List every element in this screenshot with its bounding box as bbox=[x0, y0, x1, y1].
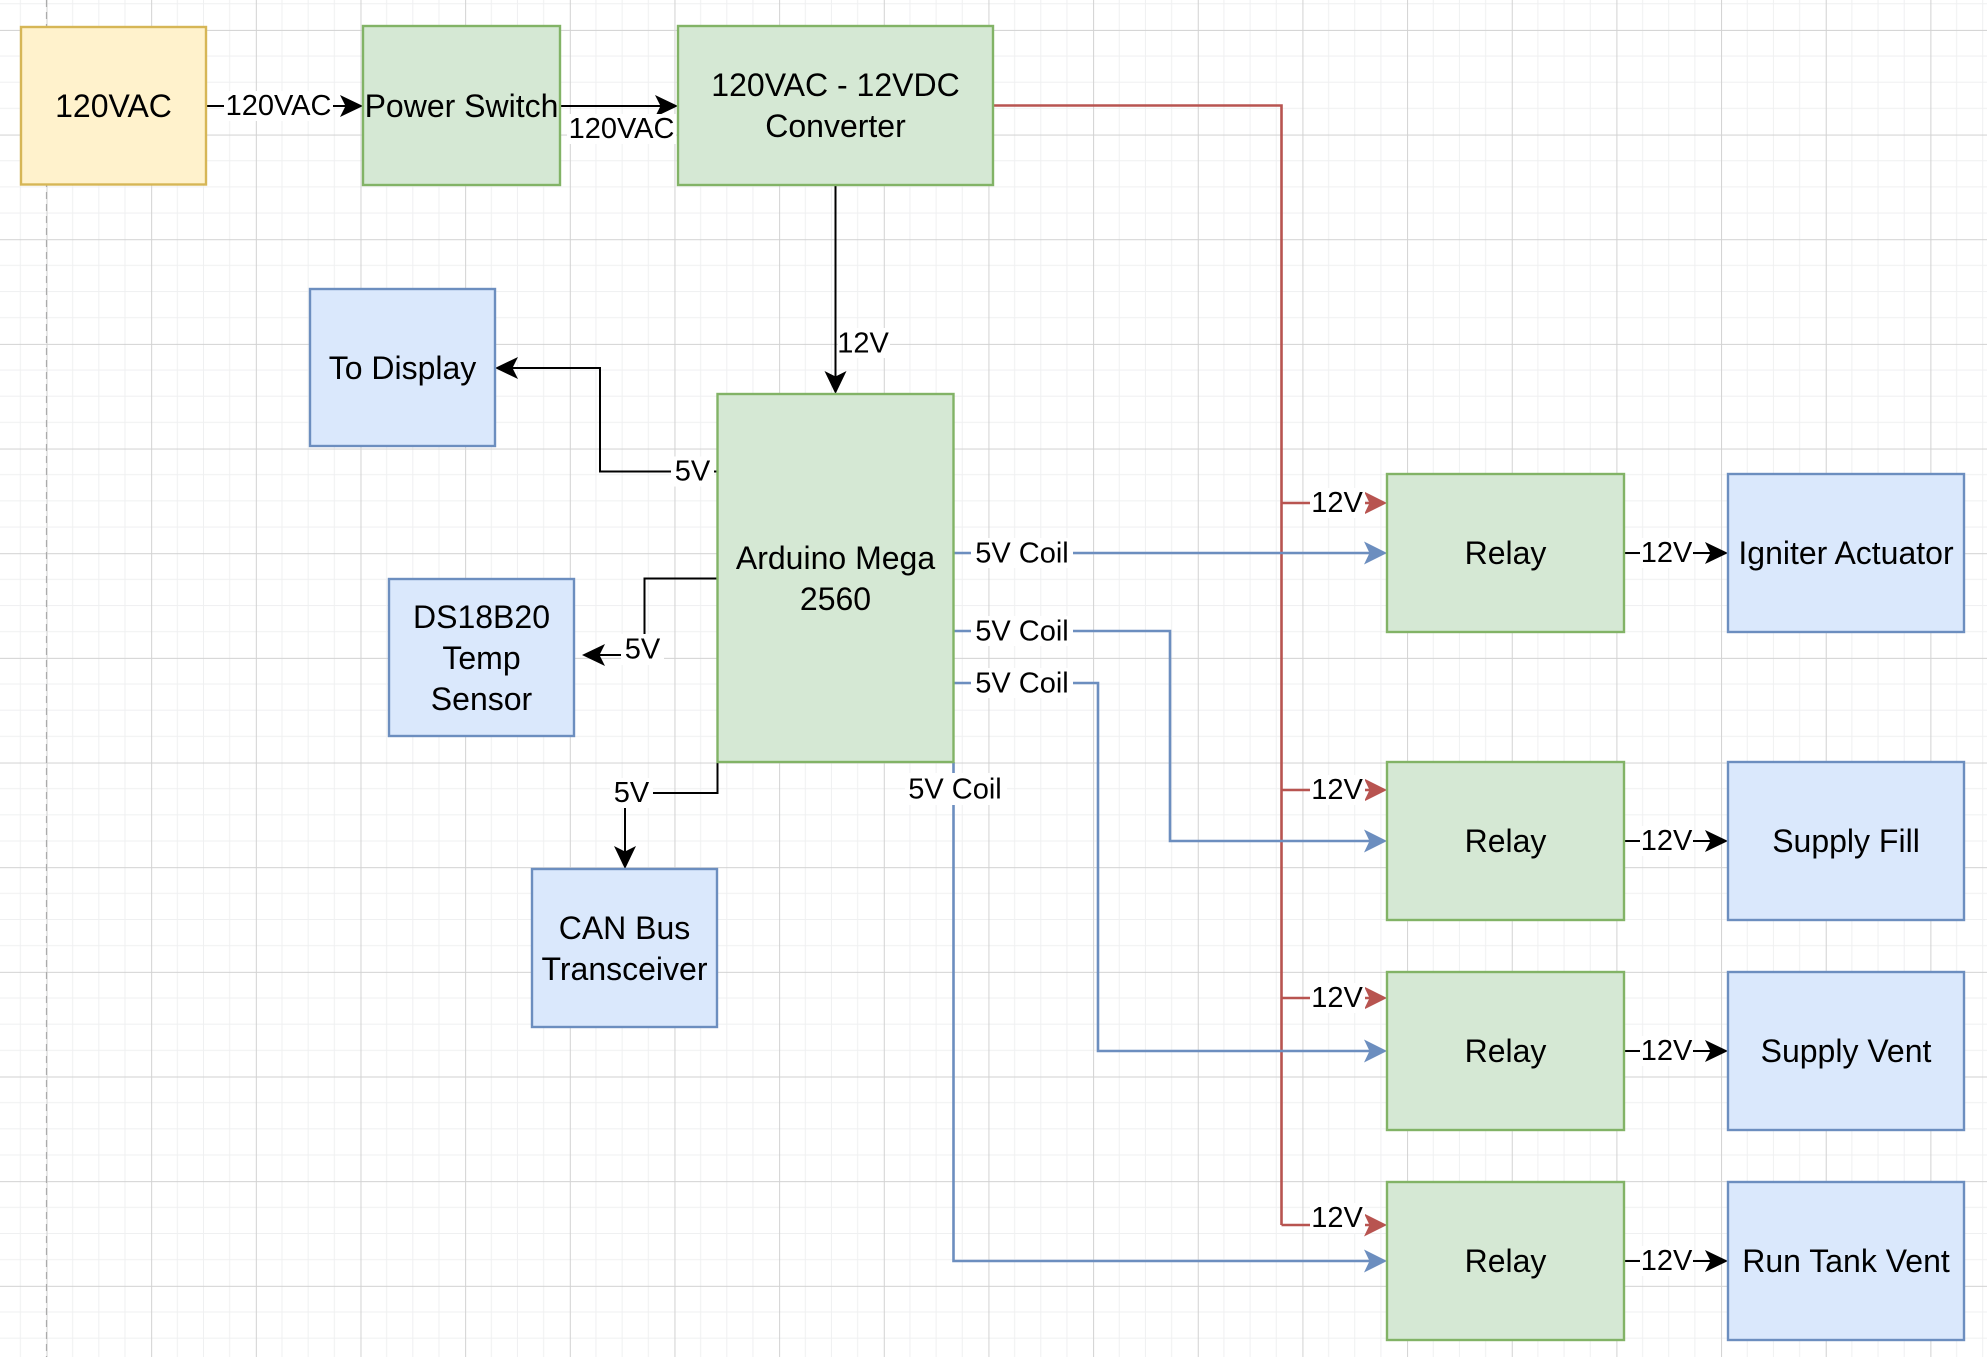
wire red 12V branch to Relay 1 bbox=[1282, 492, 1388, 515]
label 5V ds18b20 wire bbox=[621, 634, 664, 666]
svg-text:5V: 5V bbox=[625, 634, 661, 666]
svg-text:12V: 12V bbox=[1641, 825, 1693, 857]
svg-text:12V: 12V bbox=[1641, 1245, 1693, 1277]
label 120VAC on wire to Power Switch bbox=[224, 90, 333, 122]
wire 5V to To Display bbox=[495, 357, 718, 472]
wire 5V to CAN Bus Transceiver bbox=[614, 762, 718, 869]
wire blue 5V Coil to Relay 1 bbox=[954, 542, 1388, 565]
svg-text:12V: 12V bbox=[1311, 487, 1363, 519]
svg-text:120VAC: 120VAC bbox=[569, 113, 675, 145]
block Supply Vent bbox=[1728, 972, 1964, 1130]
svg-text:Igniter Actuator: Igniter Actuator bbox=[1738, 535, 1954, 571]
wire 120VAC source to Power Switch bbox=[206, 95, 363, 117]
svg-text:To Display: To Display bbox=[329, 350, 477, 386]
svg-text:Relay: Relay bbox=[1465, 823, 1547, 859]
block 120VAC source bbox=[21, 27, 206, 185]
wire Relay 2 12V out to Supply Fill bbox=[1624, 830, 1729, 852]
label 12V out 4 bbox=[1640, 1245, 1693, 1277]
svg-text:Supply Vent: Supply Vent bbox=[1761, 1033, 1932, 1069]
svg-text:5V Coil: 5V Coil bbox=[975, 538, 1069, 570]
svg-text:Converter: Converter bbox=[765, 108, 906, 144]
label 12V red branch 2 bbox=[1310, 774, 1365, 806]
svg-text:12V: 12V bbox=[1311, 982, 1363, 1014]
svg-text:Relay: Relay bbox=[1465, 1243, 1547, 1279]
svg-text:CAN Bus: CAN Bus bbox=[559, 910, 691, 946]
label 12V out 2 bbox=[1640, 825, 1693, 857]
label 12V red branch 1 bbox=[1310, 487, 1365, 519]
wire red 12V bus from Converter bbox=[994, 106, 1282, 1226]
block Power Switch bbox=[363, 26, 560, 185]
wire Relay 4 12V out to Run Tank Vent bbox=[1624, 1250, 1729, 1272]
svg-text:5V Coil: 5V Coil bbox=[975, 668, 1069, 700]
block Relay 1 bbox=[1387, 474, 1624, 632]
label 12V out 3 bbox=[1640, 1035, 1693, 1067]
svg-text:Power Switch: Power Switch bbox=[365, 88, 559, 124]
label 12V out 1 bbox=[1640, 537, 1693, 569]
block CAN Bus Transceiver bbox=[532, 869, 717, 1027]
wire blue 5V Coil to Relay 4 bbox=[954, 762, 1388, 1273]
svg-text:Arduino Mega: Arduino Mega bbox=[736, 540, 935, 576]
svg-text:120VAC - 12VDC: 120VAC - 12VDC bbox=[711, 67, 959, 103]
block Relay 4 bbox=[1387, 1182, 1624, 1340]
svg-text:Transceiver: Transceiver bbox=[542, 951, 708, 987]
block Arduino Mega 2560 bbox=[718, 394, 954, 762]
label 5V to display wire bbox=[671, 456, 714, 488]
block 120VAC - 12VDC Converter bbox=[678, 26, 993, 185]
svg-text:5V: 5V bbox=[614, 777, 650, 809]
wire Converter 12V down to Arduino bbox=[825, 186, 847, 395]
block DS18B20 Temp Sensor bbox=[389, 579, 574, 736]
wire Relay 3 12V out to Supply Vent bbox=[1624, 1040, 1729, 1062]
block Supply Fill bbox=[1728, 762, 1964, 920]
block Relay 2 bbox=[1387, 762, 1624, 920]
svg-text:120VAC: 120VAC bbox=[55, 88, 172, 124]
svg-text:Supply Fill: Supply Fill bbox=[1772, 823, 1920, 859]
svg-text:12V: 12V bbox=[1641, 537, 1693, 569]
svg-text:12V: 12V bbox=[1641, 1035, 1693, 1067]
wire blue 5V Coil to Relay 2 bbox=[954, 631, 1388, 853]
svg-text:5V Coil: 5V Coil bbox=[975, 616, 1069, 648]
label 5V Coil 1 bbox=[971, 538, 1073, 570]
label 5V Coil 4 bbox=[905, 773, 1007, 806]
label 12V on converter-arduino wire bbox=[837, 328, 890, 360]
label 5V Coil 3 bbox=[971, 668, 1073, 700]
label 5V Coil 2 bbox=[971, 616, 1073, 648]
wire 5V to DS18B20 bbox=[582, 579, 718, 667]
svg-text:Sensor: Sensor bbox=[431, 681, 533, 717]
svg-text:2560: 2560 bbox=[800, 581, 871, 617]
block To Display bbox=[310, 289, 495, 446]
svg-text:120VAC: 120VAC bbox=[226, 90, 332, 122]
block Relay 3 bbox=[1387, 972, 1624, 1130]
wire Relay 1 12V out to Igniter Actuator bbox=[1624, 542, 1729, 564]
wire red 12V branch to Relay 4 bbox=[1282, 1214, 1388, 1237]
wire blue 5V Coil to Relay 3 bbox=[954, 683, 1388, 1063]
svg-text:Run Tank Vent: Run Tank Vent bbox=[1742, 1243, 1950, 1279]
svg-text:12V: 12V bbox=[837, 328, 889, 360]
svg-text:Relay: Relay bbox=[1465, 535, 1547, 571]
label 120VAC on wire to Converter bbox=[567, 113, 676, 145]
label 5V can bus wire bbox=[610, 777, 653, 809]
svg-text:12V: 12V bbox=[1311, 774, 1363, 806]
wire Power Switch to Converter bbox=[560, 95, 678, 117]
svg-text:12V: 12V bbox=[1311, 1202, 1363, 1234]
wire red 12V branch to Relay 2 bbox=[1282, 779, 1388, 802]
label 12V red branch 4 bbox=[1310, 1202, 1365, 1234]
block Run Tank Vent bbox=[1728, 1182, 1964, 1340]
svg-text:DS18B20: DS18B20 bbox=[413, 599, 550, 635]
svg-text:5V: 5V bbox=[675, 456, 711, 488]
svg-text:Relay: Relay bbox=[1465, 1033, 1547, 1069]
label 12V red branch 3 bbox=[1310, 982, 1365, 1014]
block Igniter Actuator bbox=[1728, 474, 1964, 632]
wire red 12V branch to Relay 3 bbox=[1282, 987, 1388, 1010]
svg-text:Temp: Temp bbox=[442, 640, 520, 676]
svg-text:5V Coil: 5V Coil bbox=[908, 774, 1002, 806]
